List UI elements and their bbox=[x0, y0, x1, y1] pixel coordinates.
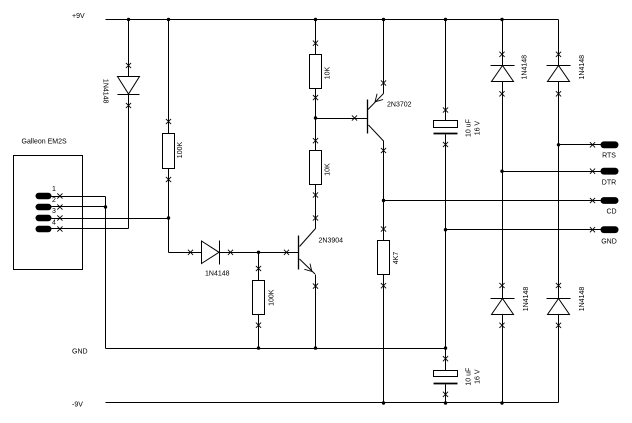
capacitor C1 10uF 16V bbox=[434, 121, 458, 134]
wire node A to R2 bbox=[258, 253, 260, 281]
resistor R3 10K bbox=[310, 55, 322, 89]
wire CD row bbox=[384, 200, 601, 202]
net -9V label bbox=[72, 401, 83, 408]
wire pin4 row bbox=[52, 228, 129, 230]
resistor R2 value label 100K bbox=[268, 289, 275, 306]
pin marker GND bbox=[590, 227, 595, 232]
wire GND signal row bbox=[446, 229, 601, 231]
pin marker C1 minus bbox=[443, 142, 448, 147]
pin marker DTR bbox=[590, 169, 595, 174]
terminal DTR label bbox=[602, 180, 616, 187]
svg-text:10 uF: 10 uF bbox=[466, 368, 473, 386]
svg-text:2N3904: 2N3904 bbox=[319, 238, 344, 245]
terminal RTS label bbox=[602, 153, 616, 160]
wire Q1 emitter to GND rail bbox=[315, 275, 317, 349]
wire GND rail bbox=[106, 348, 446, 350]
connector J1 pin 2 number bbox=[52, 197, 56, 204]
svg-text:2N3702: 2N3702 bbox=[387, 102, 412, 109]
node base node A bbox=[257, 251, 260, 254]
svg-text:16 V: 16 V bbox=[475, 369, 482, 384]
connector J1 pin 3 bbox=[36, 215, 52, 221]
wire R3 to R4 bbox=[315, 89, 317, 151]
connector J1 pin 3 number bbox=[52, 208, 56, 215]
svg-text:DTR: DTR bbox=[602, 180, 616, 187]
node CD junction bbox=[382, 199, 385, 202]
capacitor C2 value label 10 uF 16 V bbox=[466, 368, 482, 386]
terminal CD pin bbox=[601, 197, 619, 204]
node DTR junction bbox=[500, 170, 503, 173]
svg-text:RTS: RTS bbox=[602, 153, 616, 160]
transistor Q1 emitter lead bbox=[300, 259, 316, 274]
svg-text:1N4148: 1N4148 bbox=[579, 287, 586, 312]
transistor Q1 collector lead bbox=[300, 229, 316, 247]
pin marker pin2 bbox=[57, 204, 62, 209]
wire +9V to D1 anode bbox=[128, 20, 130, 77]
pin marker D5 cathode bbox=[499, 283, 504, 288]
terminal DTR pin bbox=[601, 168, 619, 175]
resistor R3 value label 10K bbox=[324, 66, 331, 79]
connector J1 pin 1 number bbox=[52, 186, 56, 193]
transistor Q1 base bar bbox=[298, 236, 300, 270]
pin marker R2 top bbox=[256, 266, 261, 271]
svg-text:1N4148: 1N4148 bbox=[205, 271, 230, 278]
pin marker R2 bottom bbox=[256, 323, 261, 328]
wire R4 bottom to Q1 collector bbox=[315, 185, 317, 229]
wire node B to Q2 base bbox=[316, 118, 368, 120]
node +9V / R3 column bbox=[314, 18, 317, 21]
wire +9V to Q2 emitter bbox=[383, 20, 385, 94]
connector J1 Galleon EM2S label bbox=[22, 139, 67, 146]
svg-text:10 uF: 10 uF bbox=[466, 119, 473, 137]
svg-text:16 V: 16 V bbox=[475, 121, 482, 136]
svg-text:10K: 10K bbox=[324, 66, 331, 79]
wire +9V to D3 cathode bbox=[502, 20, 504, 66]
pin marker D4 cathode bbox=[556, 52, 561, 57]
pin marker R1 top bbox=[166, 119, 171, 124]
transistor Q2 emitter lead bbox=[368, 94, 384, 110]
svg-text:4: 4 bbox=[52, 220, 56, 227]
connector J1 pin 4 number bbox=[52, 220, 56, 227]
connector J1 pin 4 bbox=[36, 226, 52, 232]
terminal RTS pin bbox=[601, 141, 619, 148]
pin marker R5 top bbox=[381, 226, 386, 231]
pin marker pin1 bbox=[57, 193, 62, 198]
diode D5 1N4148 (pointing up) bbox=[491, 299, 515, 315]
pin marker D2 anode bbox=[188, 250, 193, 255]
transistor Q2 label 2N3702 bbox=[387, 102, 412, 109]
wire R1 bottom down to corner bbox=[168, 169, 170, 253]
svg-text:1N4148: 1N4148 bbox=[521, 55, 528, 80]
pin marker D3 anode bbox=[499, 91, 504, 96]
wire +9V to R1 bbox=[168, 20, 170, 134]
diode D5 value label 1N4148 bbox=[523, 287, 530, 312]
resistor R1 100K bbox=[163, 134, 175, 169]
diode D4 value label 1N4148 bbox=[579, 55, 586, 80]
pin marker D6 anode bbox=[556, 323, 561, 328]
wire +9V rail corner to D4 cathode bbox=[558, 20, 560, 66]
pin marker D6 cathode bbox=[556, 283, 561, 288]
pin marker Q2 base bbox=[352, 115, 357, 120]
pin marker R3 bottom bbox=[313, 95, 318, 100]
pin marker Q2 emitter bbox=[381, 80, 386, 85]
node +9V / R1 column bbox=[167, 18, 170, 21]
node +9V / D3 column bbox=[500, 18, 503, 21]
wire +9V to C1 bbox=[445, 20, 447, 121]
svg-text:1: 1 bbox=[52, 186, 56, 193]
wire D6 anode to -9V rail corner bbox=[558, 315, 560, 403]
wire RTS row bbox=[559, 144, 601, 146]
pin marker C2 minus bbox=[443, 392, 448, 397]
resistor R4 value label 10K bbox=[324, 163, 331, 176]
wire pin1 row bbox=[52, 196, 106, 198]
terminal CD label bbox=[606, 209, 616, 216]
pin marker D1 anode bbox=[126, 63, 131, 68]
wire -9V rail bbox=[106, 402, 559, 404]
wire D1 cathode to pin4 row bbox=[128, 95, 130, 229]
pin marker C1 plus bbox=[443, 107, 448, 112]
node GND signal junction bbox=[444, 228, 447, 231]
wire pins 1-2 vertical to GND rail bbox=[105, 197, 107, 349]
pin marker R1 bottom bbox=[166, 177, 171, 182]
svg-text:1N4148: 1N4148 bbox=[523, 287, 530, 312]
svg-text:1N4148: 1N4148 bbox=[579, 55, 586, 80]
capacitor C2 10uF 16V bbox=[434, 371, 458, 384]
node C2 / -9V rail bbox=[444, 401, 447, 404]
transistor Q2 emitter arrow (PNP) bbox=[375, 94, 383, 102]
pin marker Q1 collector bbox=[313, 215, 318, 220]
transistor Q1 emitter arrow bbox=[304, 264, 311, 272]
svg-text:GND: GND bbox=[601, 239, 617, 246]
wire +9V rail bbox=[106, 19, 559, 21]
node divider node B bbox=[314, 116, 317, 119]
svg-text:Galleon EM2S: Galleon EM2S bbox=[22, 139, 67, 146]
connector J1 Galleon EM2S body bbox=[14, 156, 83, 270]
node +9V / D1 column bbox=[127, 18, 130, 21]
diode D1 value label 1N4148 bbox=[102, 79, 109, 104]
svg-text:1N4148: 1N4148 bbox=[102, 79, 109, 104]
transistor Q2 base bar bbox=[367, 100, 369, 134]
node RTS junction bbox=[557, 143, 560, 146]
net +9V label bbox=[72, 13, 85, 20]
pin marker R5 bottom bbox=[381, 283, 386, 288]
svg-text:4K7: 4K7 bbox=[393, 252, 400, 265]
node D5 / -9V rail bbox=[500, 401, 503, 404]
svg-text:2: 2 bbox=[52, 197, 56, 204]
pin marker R4 bottom bbox=[313, 192, 318, 197]
pin marker D4 anode bbox=[556, 91, 561, 96]
pin marker C2 plus bbox=[443, 356, 448, 361]
node C1 / GND rail end bbox=[444, 346, 447, 349]
connector J1 pin 2 bbox=[36, 204, 52, 210]
pin marker pin4 bbox=[57, 226, 62, 231]
svg-text:-9V: -9V bbox=[72, 401, 83, 408]
terminal GND pin bbox=[601, 226, 619, 233]
svg-text:3: 3 bbox=[52, 208, 56, 215]
resistor R5 4K7 bbox=[378, 241, 390, 275]
wire pin2 row bbox=[52, 206, 106, 208]
node pin3 junction bbox=[167, 216, 170, 219]
wire corner to D2 anode bbox=[169, 252, 202, 254]
svg-text:+9V: +9V bbox=[72, 13, 85, 20]
diode D2 1N4148 (pointing right) bbox=[202, 241, 220, 265]
pin marker Q1 emitter bbox=[313, 284, 318, 289]
wire GND rail to C2 bbox=[445, 349, 447, 371]
pin marker RTS bbox=[590, 142, 595, 147]
wire C2 to -9V rail bbox=[445, 385, 447, 403]
diode D6 1N4148 (pointing up) bbox=[547, 299, 571, 315]
wire D4 anode to D6 cathode bbox=[558, 82, 560, 299]
wire D2 cathode to Q1 base bbox=[220, 252, 299, 254]
diode D2 value label 1N4148 bbox=[205, 271, 230, 278]
svg-text:GND: GND bbox=[72, 349, 88, 356]
transistor Q1 label 2N3904 bbox=[319, 238, 344, 245]
wire R5 bottom to -9V rail bbox=[383, 275, 385, 403]
pin marker D3 cathode bbox=[499, 52, 504, 57]
pin marker D2 cathode bbox=[228, 250, 233, 255]
resistor R2 100K bbox=[253, 281, 265, 315]
node +9V / C1 column bbox=[444, 18, 447, 21]
wire D3 anode to D5 cathode bbox=[502, 82, 504, 299]
node R5 / -9V rail bbox=[382, 401, 385, 404]
node pin2 junction bbox=[104, 205, 107, 208]
wire R2 bottom to GND rail bbox=[258, 315, 260, 349]
diode D1 1N4148 (pointing down) bbox=[118, 77, 140, 95]
pin marker Q2 collector bbox=[381, 148, 386, 153]
wire D5 anode to -9V rail bbox=[502, 315, 504, 403]
diode D6 value label 1N4148 bbox=[579, 287, 586, 312]
node Q1 emitter / GND rail bbox=[314, 346, 317, 349]
node R2 / GND rail bbox=[257, 346, 260, 349]
pin marker D5 anode bbox=[499, 323, 504, 328]
pin marker R3 top bbox=[313, 41, 318, 46]
svg-text:100K: 100K bbox=[268, 289, 275, 306]
transistor Q2 collector lead bbox=[369, 125, 384, 141]
pin marker pin3 bbox=[57, 215, 62, 220]
resistor R5 value label 4K7 bbox=[393, 252, 400, 265]
terminal GND label bbox=[601, 239, 617, 246]
svg-text:10K: 10K bbox=[324, 163, 331, 176]
resistor R4 10K bbox=[310, 151, 322, 185]
resistor R1 value label 100K bbox=[177, 142, 184, 159]
wire +9V to R3 bbox=[315, 20, 317, 55]
diode D4 1N4148 (pointing up) bbox=[547, 66, 571, 82]
pin marker CD bbox=[590, 198, 595, 203]
node +9V / Q2 emitter column bbox=[382, 18, 385, 21]
capacitor C1 value label 10 uF 16 V bbox=[466, 119, 482, 137]
diode D3 value label 1N4148 bbox=[521, 55, 528, 80]
svg-text:100K: 100K bbox=[177, 142, 184, 159]
wire C1 to GND rail bbox=[445, 135, 447, 349]
net GND label bbox=[72, 349, 88, 356]
wire DTR row bbox=[503, 171, 601, 173]
pin marker D1 cathode bbox=[126, 103, 131, 108]
pin marker R4 top bbox=[313, 138, 318, 143]
wire pin3 row bbox=[52, 218, 169, 220]
wire Q2 collector down to R5 bbox=[383, 141, 385, 241]
pin marker Q1 base bbox=[284, 250, 289, 255]
diode D3 1N4148 (pointing up) bbox=[491, 66, 515, 82]
svg-text:CD: CD bbox=[606, 209, 616, 216]
connector J1 pin 1 bbox=[36, 193, 52, 199]
